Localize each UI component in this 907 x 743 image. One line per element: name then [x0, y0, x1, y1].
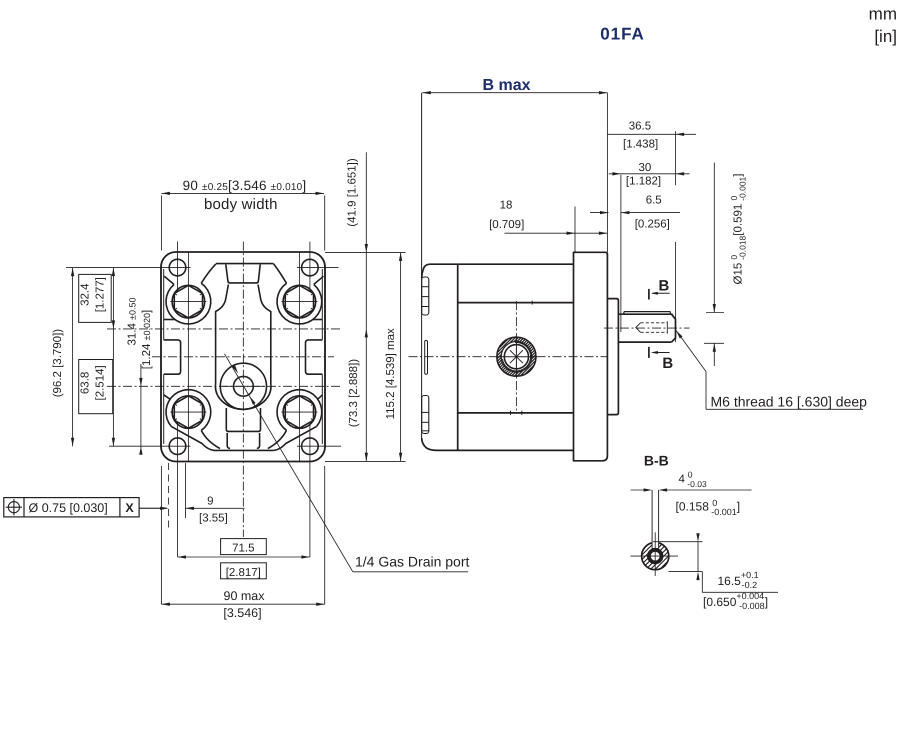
svg-text:90 max: 90 max — [224, 589, 266, 603]
svg-text:9: 9 — [207, 496, 213, 508]
svg-text:[2.817]: [2.817] — [226, 567, 261, 579]
svg-text:[3.55]: [3.55] — [199, 513, 228, 525]
svg-text:115.2 [4.539] max: 115.2 [4.539] max — [385, 328, 397, 419]
svg-text:mm: mm — [869, 5, 897, 24]
svg-text:[1.438]: [1.438] — [623, 139, 658, 151]
svg-text:B: B — [662, 355, 673, 372]
svg-text:6.5: 6.5 — [646, 194, 662, 206]
svg-text:body width: body width — [204, 196, 278, 213]
svg-text:Ø 0.75 [0.030]: Ø 0.75 [0.030] — [29, 501, 108, 515]
svg-text:-0.03: -0.03 — [687, 479, 707, 489]
svg-text:71.5: 71.5 — [232, 543, 254, 555]
svg-text:[in]: [in] — [874, 27, 897, 46]
svg-text:32.4: 32.4 — [80, 283, 92, 306]
svg-text:X: X — [125, 501, 134, 515]
svg-text:4: 4 — [679, 474, 686, 486]
svg-text:[1.277]: [1.277] — [95, 277, 107, 312]
svg-text:B-B: B-B — [644, 453, 669, 469]
svg-text:01FA: 01FA — [600, 25, 645, 44]
svg-text:[2.514]: [2.514] — [95, 365, 107, 400]
svg-text:[1.182]: [1.182] — [626, 175, 661, 187]
svg-text:30: 30 — [639, 162, 652, 174]
svg-text:B: B — [659, 278, 670, 295]
svg-text:(96.2 [3.790]): (96.2 [3.790]) — [52, 329, 64, 398]
svg-text:[0.709]: [0.709] — [489, 219, 524, 231]
svg-text:1/4 Gas Drain port: 1/4 Gas Drain port — [355, 554, 469, 570]
svg-text:(73.3 [2.888]): (73.3 [2.888]) — [348, 359, 360, 428]
svg-text:31.4 ±0.50: 31.4 ±0.50 — [127, 297, 139, 345]
svg-text:B max: B max — [482, 77, 530, 94]
svg-text:63.8: 63.8 — [80, 372, 92, 394]
svg-text:(41.9 [1.651]): (41.9 [1.651]) — [347, 158, 359, 227]
svg-text:[0.256]: [0.256] — [635, 218, 670, 230]
svg-text:0: 0 — [688, 469, 693, 479]
svg-text:[3.546]: [3.546] — [223, 606, 261, 620]
svg-text:36.5: 36.5 — [629, 120, 651, 132]
svg-text:[1.24 ±0.020]: [1.24 ±0.020] — [141, 310, 153, 369]
svg-text:18: 18 — [500, 200, 513, 212]
svg-text:M6 thread 16 [.630] deep: M6 thread 16 [.630] deep — [711, 394, 868, 410]
